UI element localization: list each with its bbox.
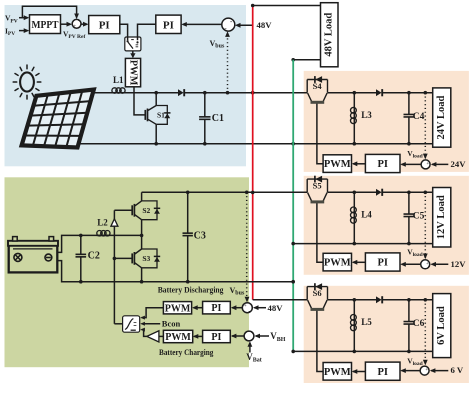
summer Vload 12V xyxy=(421,260,430,271)
svg-text:L2: L2 xyxy=(97,218,108,228)
wire 12V ref to summer xyxy=(430,262,448,267)
battery converter region (green) xyxy=(5,177,250,367)
node VPV Ref label xyxy=(63,30,85,41)
wire battery negative xyxy=(57,261,293,284)
capacitor C4 xyxy=(404,93,415,144)
node Vbus label bottom xyxy=(230,286,245,297)
diode D6V xyxy=(376,296,382,303)
svg-text:S6: S6 xyxy=(313,288,322,298)
wire summer to PI 6V xyxy=(400,368,420,373)
svg-text:C1: C1 xyxy=(212,113,224,124)
wire Vbus summer to PI2 xyxy=(181,22,222,27)
inductor L2 xyxy=(97,231,110,236)
inductor L1 xyxy=(112,88,125,93)
node 6 V ref label xyxy=(451,365,464,375)
summer battery charging xyxy=(244,330,254,342)
wire summer to PI 24V xyxy=(400,162,421,167)
wire S2 collector xyxy=(141,192,143,201)
battery xyxy=(8,237,58,273)
node C4 label xyxy=(413,112,425,122)
svg-text:48V: 48V xyxy=(268,303,284,313)
svg-text:Battery Discharging: Battery Discharging xyxy=(158,285,224,295)
wire IPV input xyxy=(19,28,29,33)
svg-text:6V Load: 6V Load xyxy=(436,306,447,345)
capacitor C5 xyxy=(404,192,415,243)
svg-text:L1: L1 xyxy=(113,75,124,85)
wire PWM to S5 gate xyxy=(317,203,323,262)
wire S4 output line xyxy=(328,91,433,95)
wire to 48V load top xyxy=(253,5,321,7)
24V buck section region xyxy=(304,71,469,172)
wire PV bottom rail xyxy=(79,142,433,146)
svg-text:PI: PI xyxy=(377,367,388,378)
wire Vload dotted 12V xyxy=(423,192,428,259)
summer Vload 24V xyxy=(421,160,430,171)
wire 6 V ref to summer xyxy=(430,368,449,373)
svg-text:-: - xyxy=(78,19,80,25)
sun icon xyxy=(13,65,41,99)
wire Vbus dotted feedback xyxy=(225,31,230,94)
node Battery Discharging label xyxy=(158,285,224,295)
12V buck section region xyxy=(304,176,469,275)
summer Vbus 48V xyxy=(222,17,235,32)
svg-text:C4: C4 xyxy=(413,112,425,122)
node Vload label 6V xyxy=(407,357,423,368)
diode D1 (PV boost) xyxy=(178,89,184,96)
node VPV input label xyxy=(5,14,18,25)
svg-text:+: + xyxy=(426,162,429,167)
wire buffer to mode switch xyxy=(140,328,147,337)
wire switch to PWM1 xyxy=(130,51,135,58)
wire PI to PWM 24V xyxy=(352,161,366,166)
node L5 label xyxy=(361,317,372,327)
svg-text:48V Load: 48V Load xyxy=(324,13,335,57)
node C6 label xyxy=(413,319,425,329)
block PWM1 (PV) xyxy=(125,58,140,86)
transistor S1 xyxy=(145,106,170,125)
node C1 label xyxy=(212,113,224,124)
node IPV input label xyxy=(5,27,15,38)
svg-text:PWM: PWM xyxy=(324,258,351,269)
node L1 label xyxy=(113,75,124,85)
svg-text:PWM: PWM xyxy=(324,367,351,378)
svg-text:C6: C6 xyxy=(413,319,425,329)
wire 48V load return xyxy=(291,58,320,62)
wire VBat to summer xyxy=(248,341,253,352)
wire PWM to S4 gate xyxy=(317,104,323,164)
wire PI3 to PWM2 xyxy=(192,305,203,310)
block PI 6V xyxy=(365,362,400,380)
wire midpoint S2-S3 xyxy=(140,220,144,249)
node gate direction marker xyxy=(111,219,118,226)
block PI2 xyxy=(156,15,181,33)
wire battery positive xyxy=(57,234,141,253)
svg-text:24V Load: 24V Load xyxy=(436,95,447,139)
wire Vbus dotted to discharge summer xyxy=(245,192,250,302)
node Vload label 24V xyxy=(407,149,423,160)
wire PWM to S6 gate xyxy=(317,311,323,372)
transistor S5 xyxy=(307,176,327,202)
wire PI to PWM 6V xyxy=(352,369,366,374)
wire PWM1 to S1 gate xyxy=(134,87,145,115)
node C5 label xyxy=(413,212,425,222)
svg-text:PI: PI xyxy=(163,19,174,31)
wire 48V bus (red) xyxy=(251,4,255,300)
capacitor C6 xyxy=(404,300,415,352)
block PWM 12V xyxy=(323,253,351,271)
transistor S2 xyxy=(132,201,160,220)
svg-text:S5: S5 xyxy=(313,181,322,191)
svg-text:L5: L5 xyxy=(361,317,372,327)
svg-text:S4: S4 xyxy=(313,81,323,91)
wire summer to PI1 xyxy=(81,22,89,27)
wire S1 emitter xyxy=(155,124,157,143)
wire S2 gate xyxy=(114,209,132,211)
wire 48V ref to summer xyxy=(253,305,266,310)
wire Vload dotted 6V xyxy=(423,300,428,366)
summer Vload 6V xyxy=(420,366,429,377)
wire S6 output line xyxy=(328,298,433,302)
block PWM2 (discharge) xyxy=(163,302,191,315)
wire summer to PI 12V xyxy=(400,262,420,267)
block PI1 xyxy=(89,16,120,34)
svg-text:-: - xyxy=(421,265,423,271)
wire S5 output line xyxy=(328,191,433,195)
node L4 label xyxy=(361,210,372,220)
node Bcon label xyxy=(162,319,181,329)
buffer (charging inverter) xyxy=(147,331,159,342)
node L2 label xyxy=(97,218,108,228)
svg-text:-: - xyxy=(245,337,247,343)
svg-text:S3: S3 xyxy=(142,254,150,263)
svg-text:PI: PI xyxy=(377,159,388,170)
transistor S4 xyxy=(307,76,327,102)
capacitor C2 xyxy=(76,235,87,281)
block PI3 (discharge) xyxy=(203,301,231,314)
block PI 12V xyxy=(365,253,400,271)
block PWM 6V xyxy=(323,363,351,381)
svg-text:C2: C2 xyxy=(88,250,100,261)
svg-text:+: + xyxy=(244,303,247,309)
block PI 24V xyxy=(365,154,400,172)
mode selector switch (PV) xyxy=(125,37,141,51)
node 24V ref label xyxy=(451,159,467,169)
svg-text:-: - xyxy=(420,371,422,377)
capacitor C1 xyxy=(199,93,210,144)
svg-text:C3: C3 xyxy=(194,230,206,241)
wire 48V bus to summer xyxy=(235,23,253,28)
node C3 label xyxy=(194,230,206,241)
capacitor C3 xyxy=(183,192,193,281)
svg-text:L3: L3 xyxy=(361,110,372,120)
node 48V label top xyxy=(257,20,273,30)
svg-text:L4: L4 xyxy=(361,210,372,220)
wire PWM3 to buffer xyxy=(159,335,164,337)
node C2 label xyxy=(88,250,100,261)
wire PI4 to PWM3 xyxy=(193,334,203,339)
svg-text:PI: PI xyxy=(99,20,110,32)
transistor S3 xyxy=(132,249,160,268)
node Vbus label top xyxy=(210,39,225,50)
wire 24V ref to summer xyxy=(431,162,449,167)
node 48V ref label xyxy=(268,303,284,313)
wire gate bus (S2,S3) xyxy=(113,210,117,323)
svg-text:24V: 24V xyxy=(451,159,467,169)
block PWM3 (charge) xyxy=(163,330,192,343)
node 12V ref label xyxy=(451,259,467,269)
PV converter region (blue) xyxy=(5,5,247,166)
wire PI2 to mode switch xyxy=(138,24,156,37)
svg-text:PWM: PWM xyxy=(165,332,191,343)
wire MPPT to summer xyxy=(61,22,73,27)
node L3 label xyxy=(361,110,372,120)
svg-text:12V Load: 12V Load xyxy=(436,195,447,239)
load 24V Load box xyxy=(433,88,451,147)
svg-text:S2: S2 xyxy=(142,206,150,215)
svg-text:Battery Charging: Battery Charging xyxy=(159,347,214,357)
svg-text:+: + xyxy=(426,262,429,267)
block PI4 (charge) xyxy=(203,330,231,343)
wire 6V bottom rail xyxy=(293,350,433,354)
load 6V Load box xyxy=(433,294,451,358)
node Battery Charging label xyxy=(159,347,214,357)
wire S1 collector xyxy=(155,93,157,106)
wire S3 emitter xyxy=(141,268,143,282)
svg-text:PI: PI xyxy=(211,303,221,314)
6V buck section region xyxy=(304,286,469,383)
block PWM 24V xyxy=(323,155,351,173)
svg-text:PI: PI xyxy=(211,332,221,343)
solar panel xyxy=(22,90,94,148)
svg-text:48V: 48V xyxy=(257,20,273,30)
summer battery discharging xyxy=(242,303,252,315)
svg-text:-: - xyxy=(421,165,423,171)
summer VPV Ref xyxy=(72,19,81,30)
diode D24V xyxy=(376,89,382,96)
block MPPT xyxy=(30,15,61,34)
wire PI1 to mode switch xyxy=(120,24,128,37)
wire battery top rail xyxy=(142,191,308,195)
svg-text:C5: C5 xyxy=(413,212,425,222)
svg-text:6 V: 6 V xyxy=(451,365,464,375)
wire VPV input xyxy=(19,15,29,20)
wire summer to PI3 xyxy=(231,305,243,310)
svg-text:-: - xyxy=(248,309,250,315)
svg-text:PI: PI xyxy=(377,258,388,269)
svg-text:PWM: PWM xyxy=(128,60,139,86)
node VBH label xyxy=(270,331,286,343)
node VBat label xyxy=(246,352,262,364)
wire PI to PWM 12V xyxy=(352,260,366,265)
wire 12V bottom rail xyxy=(293,242,433,246)
inductor L4 xyxy=(351,192,357,243)
wire S3 gate xyxy=(114,257,132,259)
load 12V Load box xyxy=(433,188,451,248)
transistor S6 xyxy=(307,283,327,309)
diode D12V xyxy=(376,189,382,196)
wire VBH ref to summer xyxy=(254,334,269,339)
wire 48V bus to S6 xyxy=(253,299,308,301)
svg-text:Bcon: Bcon xyxy=(162,319,181,329)
svg-text:+: + xyxy=(251,330,254,336)
svg-text:+: + xyxy=(425,368,428,373)
inductor L3 xyxy=(351,93,357,144)
wire PWM2 to mode switch xyxy=(140,308,163,320)
wire summer to PI4 xyxy=(231,334,244,339)
wire VPV feedback to summer xyxy=(22,6,79,19)
svg-text:PWM: PWM xyxy=(165,303,191,314)
wire load return bus (green) xyxy=(291,60,295,353)
svg-text:+: + xyxy=(73,24,76,29)
wire Bcon to mode switch xyxy=(140,322,160,326)
svg-text:12V: 12V xyxy=(451,259,467,269)
svg-text:S1: S1 xyxy=(157,111,165,120)
wire mode switch to gate bus xyxy=(114,323,122,325)
node Vload label 12V xyxy=(407,247,423,258)
svg-text:MPPT: MPPT xyxy=(32,20,59,31)
load 48V Load xyxy=(321,3,339,67)
svg-text:PWM: PWM xyxy=(324,159,351,170)
wire PV main line xyxy=(92,91,307,95)
inductor L5 xyxy=(351,300,357,352)
mode selector switch (battery) xyxy=(123,316,140,332)
wire Vload dotted 24V xyxy=(423,93,428,160)
